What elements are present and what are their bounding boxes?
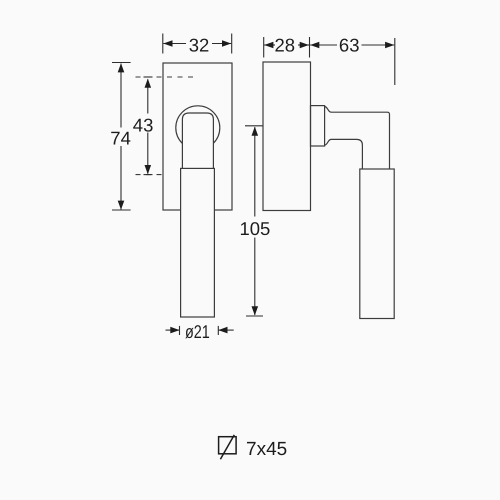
dim 28 line [264, 44, 275, 46]
dim 63 line [310, 44, 337, 46]
svg-text:63: 63 [339, 34, 360, 55]
dim 105 arrow top [252, 127, 259, 136]
dim dia21 leader right [218, 329, 233, 331]
dim dia21 leader left [166, 329, 180, 331]
svg-text:74: 74 [110, 128, 131, 149]
spindle symbol diagonal [220, 435, 234, 459]
svg-text:28: 28 [275, 34, 296, 55]
side view grip [360, 169, 394, 319]
dim 74 arrow top [118, 63, 125, 72]
dim 32 arrow right [222, 40, 231, 47]
dim 28/63 extension middle [309, 37, 311, 58]
rose circle [176, 106, 220, 150]
dim 74 line [120, 64, 122, 128]
dim 43 line [147, 79, 149, 113]
dim 28 extension left [263, 37, 265, 58]
dim 105 line [254, 127, 256, 216]
dim 43 tick bottom [144, 174, 153, 176]
dim dia21 text [185, 321, 210, 342]
dim 63 extension right [394, 38, 396, 85]
front view backplate [163, 63, 232, 210]
svg-text:7x45: 7x45 [246, 439, 287, 460]
centerline dash top [136, 76, 194, 78]
centerline dash bottom [136, 174, 166, 176]
svg-text:32: 32 [189, 34, 210, 55]
dim 43 arrow top [145, 79, 152, 88]
dim 28 arrows [264, 42, 273, 49]
dim 105 tick top [245, 125, 263, 127]
spindle square symbol [219, 437, 237, 454]
side view neck flare and arm top [325, 107, 390, 170]
dim 43 arrow bottom [145, 165, 152, 174]
side view collar [311, 106, 325, 146]
svg-text:ø21: ø21 [185, 321, 210, 342]
dim 43 tick top [144, 76, 153, 78]
dim 32 line [163, 43, 186, 45]
dim 74 tick top [112, 62, 131, 64]
lever neck (front view) [182, 113, 213, 168]
dim 63 arrows [310, 42, 319, 49]
svg-text:43: 43 [133, 114, 154, 135]
dim 105 arrow bottom [252, 306, 259, 315]
dim 32 extension left [162, 34, 164, 54]
dim 74 tick bottom [112, 209, 131, 211]
dim 32 arrow left [163, 40, 172, 47]
side view arm bottom and inner elbow [325, 139, 363, 169]
dim 32 extension right [231, 34, 233, 54]
side view backplate [263, 62, 311, 211]
lever grip (front view) [181, 168, 215, 317]
dim dia21 tick left [179, 326, 181, 335]
dim 105 tick bottom [246, 315, 263, 317]
dim dia21 tick right [217, 326, 219, 335]
dim 74 arrow bottom [118, 201, 125, 210]
svg-text:105: 105 [239, 218, 270, 239]
